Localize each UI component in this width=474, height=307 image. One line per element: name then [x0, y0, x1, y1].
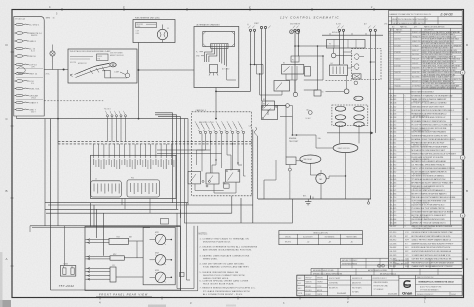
wire run 1	[177, 213, 194, 288]
cam terminal 3	[209, 131, 211, 133]
terminal row labels	[248, 26, 250, 29]
dashed link	[326, 79, 352, 81]
fuel pump symbol	[290, 30, 294, 34]
wire drop x50	[50, 119, 52, 290]
wire R11 feeds	[86, 239, 110, 241]
module A2	[305, 67, 311, 77]
wire alternator down-feed	[215, 88, 217, 119]
panel wires vertical	[90, 203, 92, 227]
connector P1-5	[15, 55, 23, 58]
ground symbol	[305, 201, 311, 203]
wire rail G	[343, 31, 345, 64]
connector P1-10	[15, 94, 23, 97]
lamp DS3	[344, 89, 349, 94]
wires to meters	[129, 240, 144, 242]
fuel unit inner plate	[136, 23, 157, 28]
wire rail D	[294, 31, 296, 92]
lamp DS5	[331, 53, 336, 58]
title section scale	[328, 279, 351, 281]
alternator assembly box	[194, 27, 239, 88]
section header B	[389, 88, 463, 90]
cam relay CR12	[226, 170, 240, 183]
CB1 breaker box	[60, 266, 75, 277]
scan smudge corner	[0, 300, 11, 307]
protector CB3	[50, 51, 55, 56]
cam terminal 5	[220, 131, 222, 133]
node ring N3	[288, 168, 291, 171]
lamp DS2	[293, 92, 297, 96]
relay K4	[330, 65, 348, 76]
wire rail T3b	[265, 29, 267, 106]
terminal T8	[369, 29, 371, 31]
front panel outline	[85, 227, 181, 291]
wire drop x58	[57, 144, 59, 226]
zone ticks top	[61, 8, 63, 11]
node junction B	[63, 69, 65, 71]
wire rail F	[339, 31, 341, 65]
wire rail I	[374, 31, 376, 132]
connector P1-3	[15, 40, 23, 43]
terminal T7	[342, 29, 344, 31]
wire mid rail	[317, 46, 319, 90]
connector column extra symbol cluster	[17, 67, 25, 74]
wire to alternator	[139, 69, 195, 71]
wire corner x188	[188, 119, 253, 205]
muffler body	[75, 64, 110, 75]
title block outline	[297, 275, 462, 296]
wire bus row 4	[46, 212, 232, 214]
regulator block	[210, 65, 218, 73]
wire rail far left	[256, 136, 258, 199]
wire rail E	[298, 31, 300, 56]
terminal board A11 outline	[91, 155, 177, 198]
wire	[23, 23, 29, 25]
muffler outlet pipe	[105, 70, 110, 78]
wire stub left	[29, 226, 31, 232]
cam aux box	[224, 184, 229, 188]
switch S7 oval	[335, 122, 345, 127]
wire R12 feeds	[86, 256, 111, 258]
fuel reserve unit box	[133, 20, 175, 43]
wires board bottom	[121, 199, 123, 206]
wire cross links	[251, 64, 264, 66]
connector P1-11	[15, 101, 23, 104]
revision balloons	[460, 70, 465, 75]
wire drop x45	[44, 119, 46, 226]
switch S6 oval	[354, 115, 364, 120]
relay K1	[282, 65, 304, 75]
plug pair P4	[354, 64, 358, 70]
switch S1 oval	[354, 96, 363, 100]
wire rail B	[254, 31, 256, 64]
title section drawn	[371, 279, 399, 281]
diode module CR1	[353, 74, 362, 79]
accessory dashed box	[332, 105, 368, 126]
cam relay CR11	[206, 173, 219, 184]
kit inner label plate	[97, 54, 109, 61]
wire oval feeds	[339, 127, 341, 144]
parts rows section A	[389, 32, 463, 34]
resistor R2	[314, 90, 321, 96]
gauge M11	[155, 234, 165, 244]
zone ticks bottom	[99, 297, 101, 300]
cam relay CR10	[188, 171, 201, 184]
insulation table	[279, 231, 363, 245]
title strip left	[297, 279, 305, 281]
fuse F1	[291, 56, 299, 62]
wire bottom bus	[258, 198, 371, 200]
module A1	[274, 81, 290, 92]
terminal board top pins	[93, 155, 95, 158]
resistor R11	[109, 238, 129, 244]
section header C	[389, 224, 463, 226]
parts list table outline	[389, 25, 463, 269]
control box F3	[327, 40, 366, 49]
revision block	[389, 11, 463, 25]
connector column J1/P1 outline	[14, 17, 44, 116]
clamp circle	[125, 73, 130, 78]
connector P1-6	[15, 63, 23, 66]
wire bus stub	[16, 116, 18, 119]
wire	[23, 47, 29, 49]
onan logo	[399, 277, 462, 279]
wires cam internals	[201, 134, 203, 172]
meter terminals row	[106, 115, 108, 117]
wire alternator B+ link	[216, 90, 251, 92]
lamp DS fuel	[157, 29, 167, 39]
cam terminal 7	[231, 131, 233, 133]
wire	[23, 108, 29, 110]
starter motor M1	[316, 173, 326, 183]
wire bus row 2	[48, 204, 253, 206]
revision circles	[378, 264, 381, 267]
wire main bus	[17, 118, 189, 120]
alternator rectifier plate	[203, 32, 235, 47]
panel edge box	[180, 273, 185, 277]
title section tol	[351, 279, 372, 281]
wire bus row 6	[32, 227, 150, 229]
cam terminal 4	[215, 131, 217, 133]
wire	[23, 87, 29, 89]
wire J21 feeds	[86, 267, 111, 269]
wire dashed link	[44, 100, 103, 102]
connector block J21	[110, 267, 116, 282]
switch S5 oval	[335, 115, 345, 120]
terminal T5	[297, 29, 299, 31]
connector P1-7	[15, 72, 23, 75]
wire top link	[322, 34, 383, 36]
gauge M13	[155, 272, 165, 282]
title signatures	[305, 278, 328, 280]
relay K3	[262, 106, 278, 120]
gauge M12	[155, 255, 165, 265]
connector P1-8	[15, 80, 23, 83]
wire bottom long	[51, 289, 181, 291]
time delay switch oval	[300, 155, 321, 163]
node ring N2	[308, 111, 312, 115]
wire	[23, 63, 29, 65]
wire corner x172	[155, 113, 173, 203]
bus end marker	[368, 199, 370, 202]
cam terminal 8	[237, 131, 239, 133]
title block dividers	[304, 275, 306, 296]
switch S4 oval	[354, 106, 364, 111]
cam terminal 6	[226, 131, 228, 133]
wire	[23, 40, 29, 42]
wire CB1 feeds	[64, 226, 66, 266]
alternator terminal strip	[211, 44, 228, 49]
wire riser cap	[252, 130, 254, 224]
wire rail H	[370, 31, 372, 199]
wire tie segment	[292, 134, 316, 136]
wire riser cam	[240, 198, 242, 223]
aux box right of panel	[161, 219, 169, 225]
wire cam return riser	[231, 196, 233, 213]
spark arrestor kit detail box	[68, 49, 137, 83]
terminal T9	[374, 29, 376, 31]
cam terminal 1	[199, 131, 201, 133]
rectifier assembly dashed box	[352, 49, 382, 80]
connector P1-4	[15, 47, 23, 50]
table extension rows	[341, 257, 389, 259]
wire accessory bottom	[327, 132, 371, 134]
parts rows section C	[389, 233, 463, 235]
wire rail T3a	[261, 29, 263, 101]
node ring N1	[286, 104, 290, 108]
connector P11 strip	[127, 180, 160, 197]
wire fuel unit feed	[138, 43, 140, 119]
cam connector lines	[157, 149, 211, 151]
start stop switch oval	[333, 143, 358, 152]
terminal block TB2	[286, 157, 296, 165]
terminal T3b	[264, 26, 266, 28]
wire	[23, 72, 29, 74]
parts table columns	[390, 28, 392, 225]
wire	[23, 101, 29, 103]
terminal T1	[249, 29, 251, 31]
cam switch assembly dashed box	[192, 112, 252, 196]
terminal T3a	[260, 26, 262, 28]
wire rail left	[263, 180, 265, 199]
wire corner x176	[155, 115, 177, 210]
cam extra wires	[205, 134, 207, 150]
terminal T2	[253, 29, 255, 31]
wire	[23, 32, 29, 34]
plug pair P3	[354, 54, 358, 60]
wire run 2	[181, 209, 198, 290]
wire	[23, 80, 29, 82]
resistor R12	[110, 256, 124, 260]
connector P1-1	[15, 23, 23, 26]
connector P1-12	[15, 108, 23, 111]
shield dashed bus pair	[58, 141, 252, 143]
wire rail A	[250, 31, 252, 91]
wire NFB down-feed	[57, 70, 59, 144]
alternator leads	[205, 49, 213, 63]
cam terminal 9	[242, 131, 244, 133]
switch S3 oval	[335, 106, 345, 111]
terminal ring	[354, 81, 358, 85]
wire bus row 3	[45, 208, 178, 210]
parts rows section B	[389, 96, 463, 98]
wire	[23, 94, 29, 96]
wire bus row 1	[45, 202, 188, 204]
wire run 3	[187, 203, 191, 280]
wire bus row 5	[30, 225, 181, 227]
wire	[23, 55, 29, 57]
cam terminal 2	[204, 131, 206, 133]
parts header	[389, 27, 463, 29]
meter box	[143, 227, 175, 284]
connector P1-9	[15, 87, 23, 90]
switch S8 oval	[354, 122, 364, 127]
terminal T4	[294, 29, 296, 31]
wire corner x180	[158, 117, 181, 218]
terminal T6	[338, 29, 340, 31]
wire corner x184	[185, 119, 293, 223]
relay K2	[262, 101, 275, 110]
connector P1-2	[15, 32, 23, 35]
node junction	[138, 69, 140, 71]
connector J1 strip	[91, 181, 122, 197]
wire mid links	[267, 114, 269, 116]
